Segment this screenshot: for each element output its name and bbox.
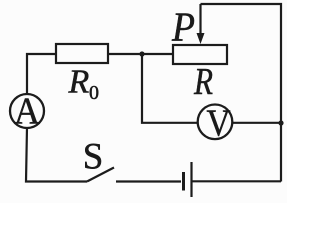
switch S blade xyxy=(87,168,114,182)
wire A bottom to switch xyxy=(26,127,87,182)
ammeter A xyxy=(10,94,44,128)
wire junction down to voltmeter xyxy=(142,54,198,123)
battery short plate xyxy=(182,172,185,191)
svg-text:S: S xyxy=(83,137,104,178)
svg-text:V: V xyxy=(207,103,231,145)
wire switch to battery xyxy=(116,180,181,182)
svg-text:P: P xyxy=(171,4,195,50)
svg-text:0: 0 xyxy=(89,82,99,104)
node junction left xyxy=(139,51,144,56)
voltmeter V xyxy=(198,105,233,140)
battery long plate xyxy=(190,162,192,197)
svg-text:R: R xyxy=(68,64,90,101)
wire R0 to rheostat R xyxy=(108,53,173,55)
svg-text:R: R xyxy=(193,61,213,103)
wire voltmeter to right xyxy=(232,122,281,124)
node junction right xyxy=(278,120,283,125)
rheostat R xyxy=(173,45,227,64)
resistor R0 xyxy=(56,44,108,63)
svg-text:A: A xyxy=(14,91,41,133)
slider P arrow xyxy=(199,4,201,35)
wire A top to R0 xyxy=(27,54,56,95)
wire slider top to right side down xyxy=(201,4,282,182)
wire battery to right corner xyxy=(192,180,281,182)
